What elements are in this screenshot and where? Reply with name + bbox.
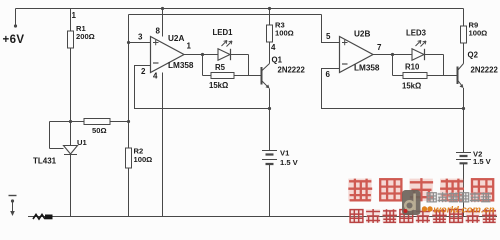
svg-text:LM358: LM358	[354, 64, 380, 73]
svg-text:100Ω: 100Ω	[134, 155, 153, 164]
wire U2B output pin7	[373, 54, 393, 56]
svg-text:1: 1	[72, 11, 77, 20]
wire reference column	[128, 15, 130, 217]
watermark small red she pin tian xian she ji zhuan jia	[349, 209, 363, 222]
svg-text:+6V: +6V	[3, 34, 25, 46]
resistor R3	[269, 9, 271, 26]
svg-text:U2B: U2B	[354, 30, 370, 39]
svg-text:U2A: U2A	[168, 34, 184, 43]
svg-text:3: 3	[138, 33, 143, 42]
svg-text:7: 7	[377, 43, 382, 52]
svg-text:6: 6	[326, 70, 331, 79]
svg-text:100Ω: 100Ω	[469, 29, 488, 38]
svg-text:2: 2	[141, 67, 146, 76]
resistor R9	[463, 9, 465, 27]
svg-text:R10: R10	[405, 63, 420, 72]
wire U2A pin8	[162, 9, 164, 37]
svg-text:15kΩ: 15kΩ	[209, 81, 228, 90]
svg-text:LED1: LED1	[213, 28, 234, 37]
svg-text:4: 4	[271, 43, 276, 52]
svg-text:LED3: LED3	[406, 29, 427, 38]
wire Q1 emitter	[269, 89, 271, 151]
LED LED3	[393, 54, 413, 56]
resistor R1	[70, 9, 72, 146]
svg-text:world.com.cn: world.com.cn	[434, 205, 495, 216]
scribble mark on rail	[33, 215, 45, 220]
svg-text:LM358: LM358	[168, 61, 194, 70]
op-amp U2A	[151, 37, 185, 73]
potentiometer 50 ohm	[50, 121, 129, 123]
wire U2B pin5	[322, 15, 340, 43]
svg-text:2N2222: 2N2222	[471, 66, 499, 75]
wire U2A pin4	[162, 73, 164, 217]
wire U2A pin2	[135, 66, 270, 109]
svg-text:R5: R5	[215, 63, 226, 72]
wire Q1 collector / node 4	[269, 42, 271, 64]
svg-text:U1: U1	[77, 138, 87, 147]
svg-text:200Ω: 200Ω	[76, 32, 95, 41]
ground probe symbol	[9, 195, 17, 197]
wire reference bus	[129, 14, 322, 16]
svg-text:4: 4	[153, 72, 158, 81]
svg-text:100Ω: 100Ω	[275, 29, 294, 38]
wire top +6V rail	[16, 8, 464, 10]
wire U2A pin3	[129, 42, 151, 44]
svg-text:Q2: Q2	[468, 51, 479, 60]
resistor R5	[203, 55, 249, 76]
watermark logo d	[402, 190, 421, 215]
svg-text:2N2222: 2N2222	[278, 66, 306, 75]
op-amp U2B	[340, 37, 374, 73]
svg-text:Q1: Q1	[272, 56, 283, 65]
wire U2A output pin1	[184, 54, 203, 56]
svg-text:TL431: TL431	[33, 157, 57, 166]
battery V1 1.5V	[262, 151, 277, 160]
regulator U1 TL431	[64, 146, 78, 155]
transistor Q1 2N2222	[261, 67, 263, 85]
transistor Q2 2N2222	[457, 67, 459, 85]
svg-text:50Ω: 50Ω	[92, 126, 107, 135]
wire bottom rail	[28, 216, 497, 218]
battery V2 1.5V	[456, 153, 471, 160]
node +6V stub	[15, 9, 17, 26]
watermark gray text dian zi gong cheng shi jie	[427, 192, 437, 202]
svg-text:5: 5	[326, 32, 331, 41]
wire Q2 collector	[463, 43, 465, 64]
LED LED1	[203, 54, 219, 56]
resistor R10	[393, 55, 444, 76]
wire Q2 emitter	[463, 88, 465, 152]
watermark url text	[422, 206, 427, 211]
svg-text:V1: V1	[280, 149, 290, 158]
svg-text:8: 8	[156, 27, 161, 36]
resistor R2	[126, 148, 132, 168]
svg-text:1.5 V: 1.5 V	[280, 158, 299, 167]
svg-text:15kΩ: 15kΩ	[402, 82, 421, 91]
wire U2B pin6	[322, 69, 464, 109]
svg-text:1.5 V: 1.5 V	[473, 157, 492, 166]
svg-text:1: 1	[187, 42, 192, 51]
watermark big red yi di tuo pei xun	[348, 179, 371, 201]
